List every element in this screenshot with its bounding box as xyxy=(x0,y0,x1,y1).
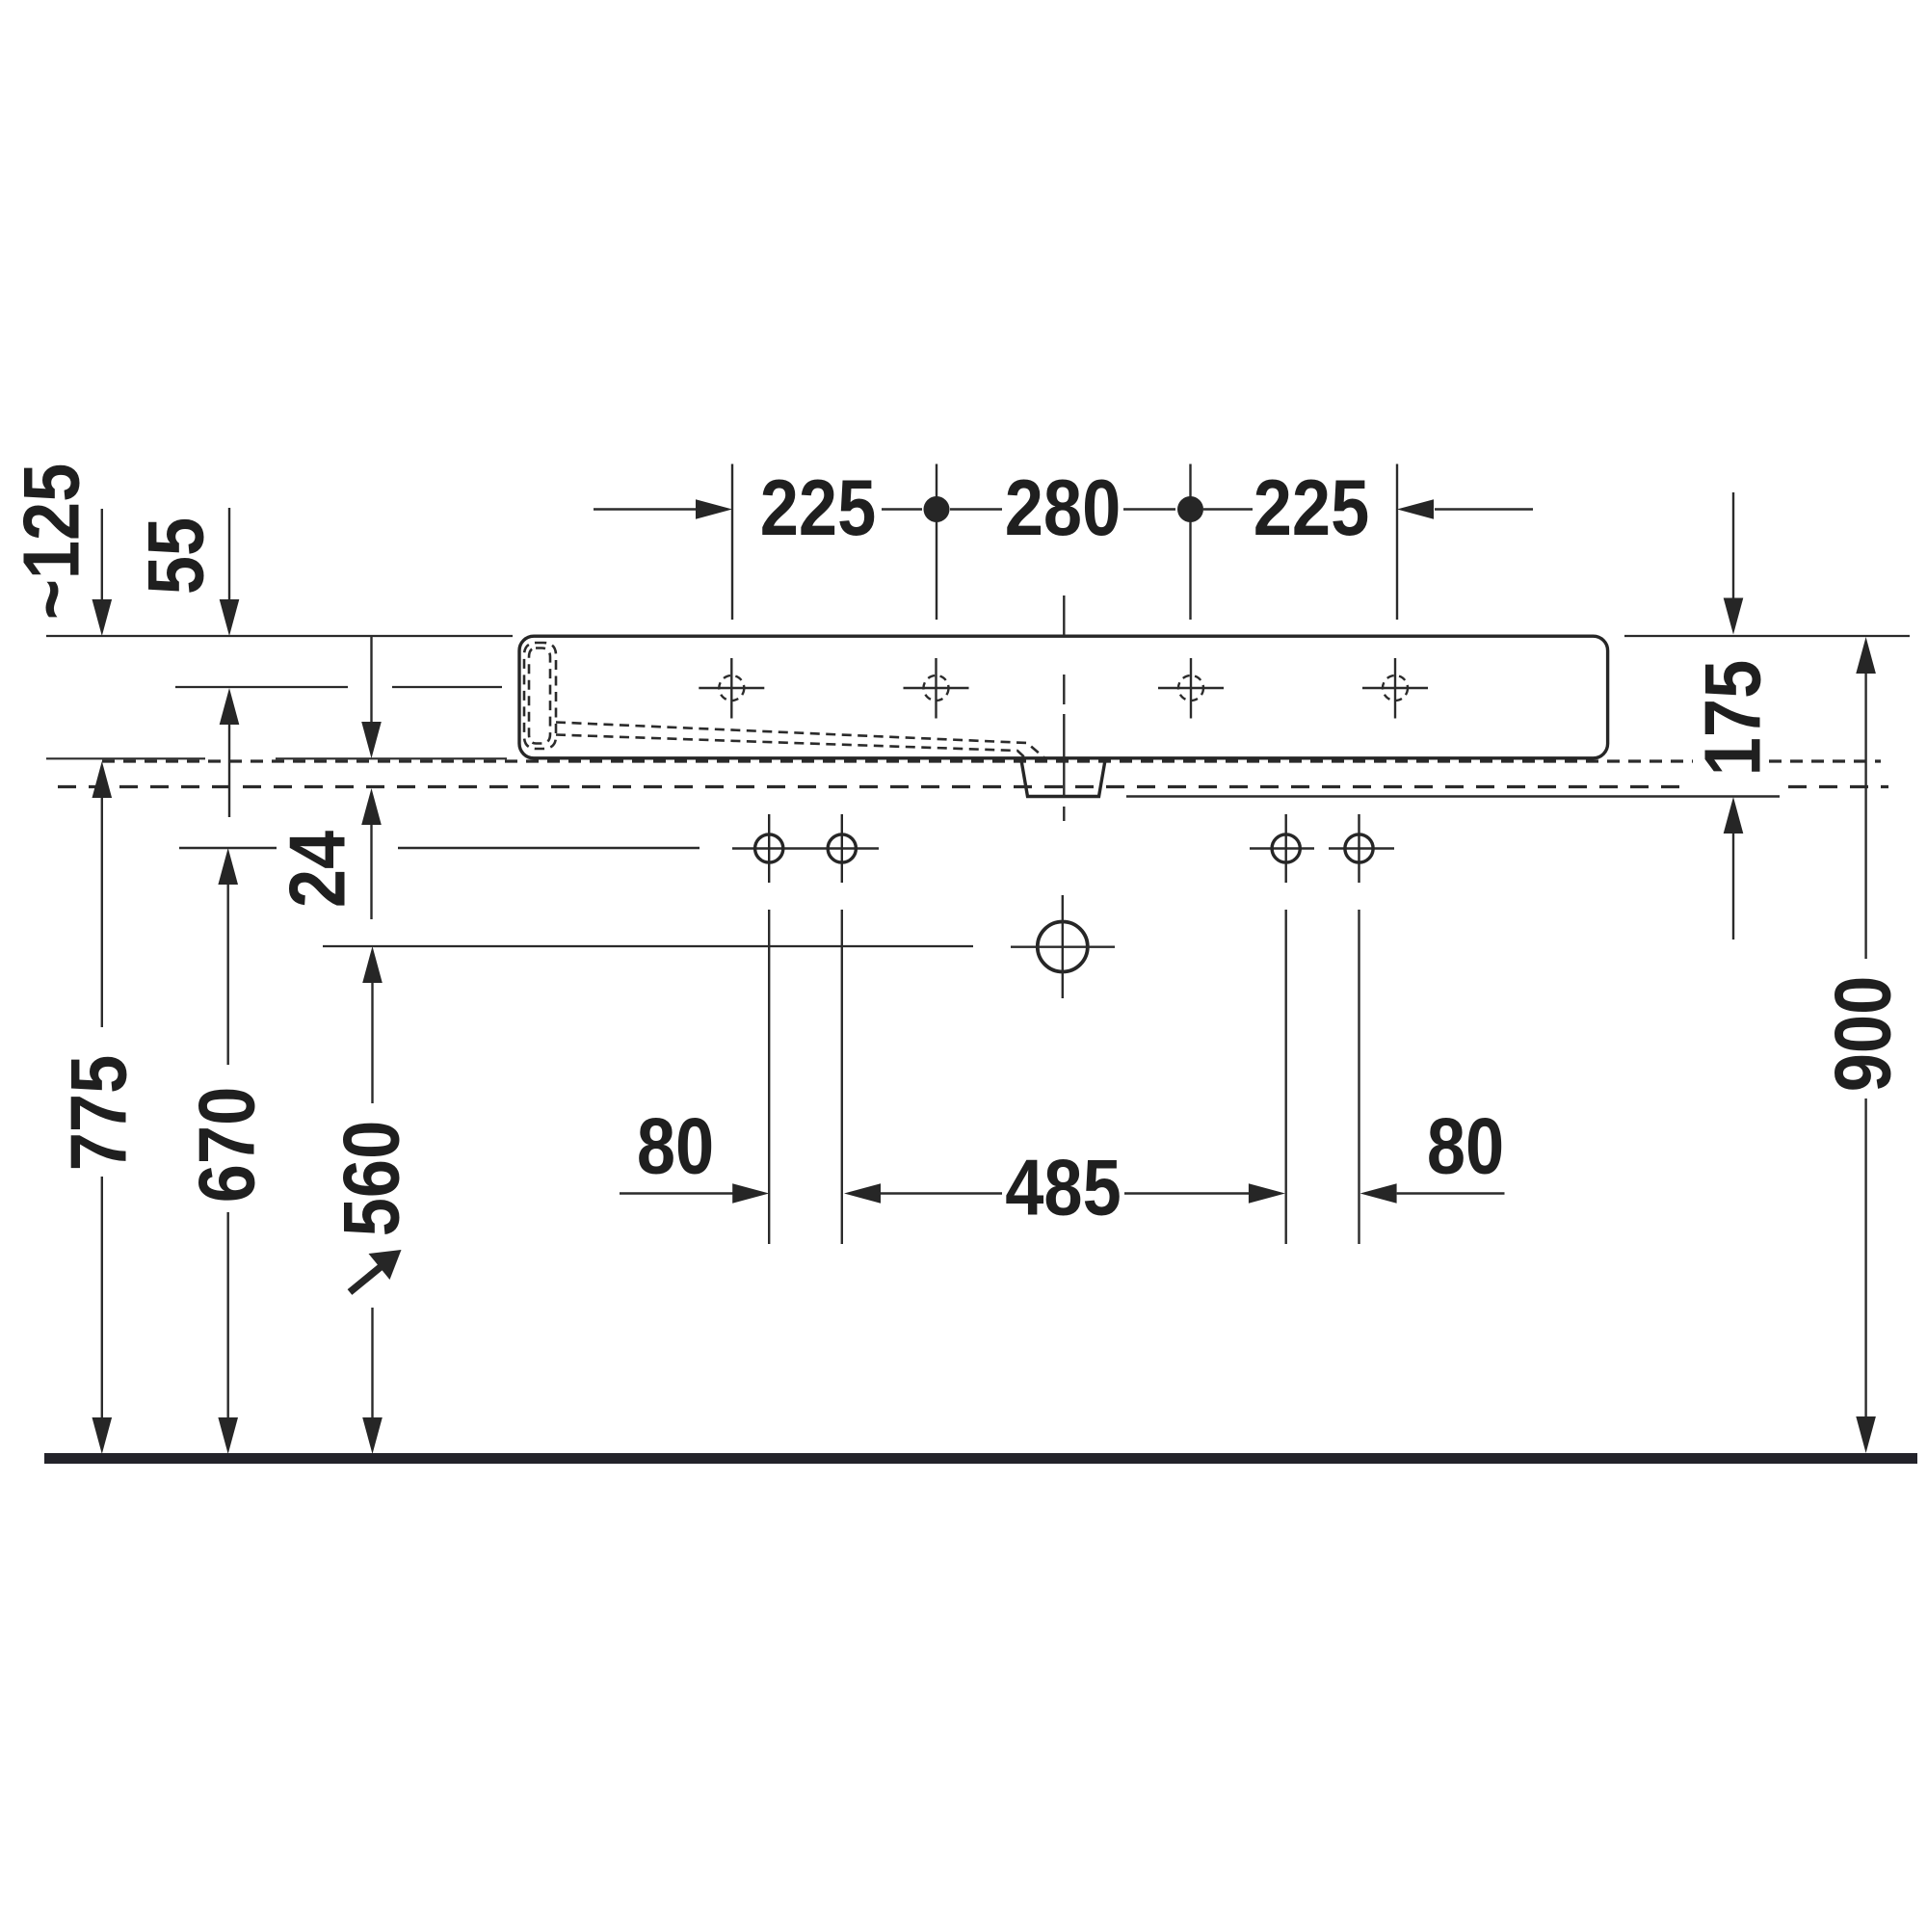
bottom extension line bolt 2 xyxy=(841,910,843,1244)
dimension 80 right xyxy=(1360,1183,1397,1204)
dimension 24 upper shaft xyxy=(370,637,372,723)
svg-text:775: 775 xyxy=(55,1055,144,1171)
mounting bolt hole 3 xyxy=(1272,814,1300,883)
top arrow pointing right xyxy=(696,499,732,519)
drain hole circle xyxy=(1038,922,1088,972)
hidden edge dashed line 1 (basin underside) xyxy=(102,759,1881,762)
svg-text:560: 560 xyxy=(328,1121,416,1236)
drain trapezoid xyxy=(1021,760,1105,797)
centre line of basin (dash-dot) xyxy=(1063,595,1065,821)
24 down arrow xyxy=(361,722,382,758)
faucet hole marker 3 xyxy=(1158,658,1224,719)
top extension line at second faucet hole xyxy=(936,464,937,621)
mounting bolt hole 2 xyxy=(828,814,856,883)
dot separator right xyxy=(1177,496,1203,522)
faucet hole marker 2 xyxy=(904,658,969,719)
dimension 55 upper line xyxy=(228,508,230,601)
mounting bolt hole 4 xyxy=(1345,814,1373,883)
55 lower shaft xyxy=(228,725,230,817)
svg-text:80: 80 xyxy=(1427,1102,1504,1191)
bowl bottom dashed lower profile xyxy=(556,735,1025,758)
top extension line at first faucet hole xyxy=(731,464,733,621)
svg-text:175: 175 xyxy=(1689,660,1778,776)
dimension 670 xyxy=(218,848,238,885)
top extension line at third faucet hole xyxy=(1189,464,1191,621)
svg-text:225: 225 xyxy=(760,464,876,553)
dimension 175 xyxy=(1732,492,1734,599)
mounting bolt hole line xyxy=(179,847,1394,850)
55 reference line xyxy=(175,686,348,688)
svg-text:900: 900 xyxy=(1819,976,1908,1092)
wall reference line left of basin xyxy=(46,635,513,637)
svg-text:55: 55 xyxy=(132,517,221,595)
dimension 560 xyxy=(362,946,383,983)
top arrow pointing left xyxy=(1397,499,1434,519)
560 slanted pointer arrow xyxy=(350,1266,382,1292)
hidden edge dashed line 2 (console lower edge) xyxy=(58,785,1888,788)
dimension 80 left xyxy=(620,1192,733,1194)
svg-text:~125: ~125 xyxy=(8,463,96,621)
dimension 900 xyxy=(1856,637,1876,674)
dimension ~125 line xyxy=(101,509,103,601)
top extension line at fourth faucet hole xyxy=(1396,464,1398,621)
svg-text:80: 80 xyxy=(637,1102,714,1191)
svg-text:24: 24 xyxy=(274,831,362,908)
svg-text:225: 225 xyxy=(1254,464,1369,553)
bottom extension line bolt 4 xyxy=(1358,910,1359,1244)
775 reference line xyxy=(46,757,205,759)
~125 down arrow xyxy=(92,599,113,636)
floor line xyxy=(44,1453,1917,1464)
bottom extension line bolt 3 xyxy=(1284,910,1286,1244)
bottom extension line bolt 1 xyxy=(768,910,770,1244)
top dimension line xyxy=(594,508,1533,510)
dimension 485 xyxy=(844,1183,881,1204)
drain crosshair xyxy=(1011,946,1115,948)
siphon reference line (24 lower) xyxy=(1126,795,1780,798)
bowl wall dashed inner loop xyxy=(529,648,550,744)
bowl wall dashed outer loop xyxy=(524,643,556,749)
faucet hole marker 1 xyxy=(699,658,764,719)
dimension 775 xyxy=(92,761,113,798)
24 up arrow xyxy=(361,788,382,825)
svg-text:485: 485 xyxy=(1005,1144,1121,1232)
svg-text:670: 670 xyxy=(183,1087,272,1203)
wall reference line right of basin xyxy=(1624,635,1910,637)
24 lower shaft xyxy=(370,825,372,919)
bowl bottom dashed upper profile xyxy=(556,723,1044,758)
dot separator left xyxy=(924,496,950,522)
55 up arrow xyxy=(220,688,240,725)
faucet hole marker 4 xyxy=(1362,658,1428,719)
basin outline xyxy=(519,636,1608,758)
55 down arrow xyxy=(220,599,240,636)
svg-text:280: 280 xyxy=(1005,464,1121,553)
mounting bolt hole 1 xyxy=(755,814,783,883)
560 reference line xyxy=(323,945,973,947)
